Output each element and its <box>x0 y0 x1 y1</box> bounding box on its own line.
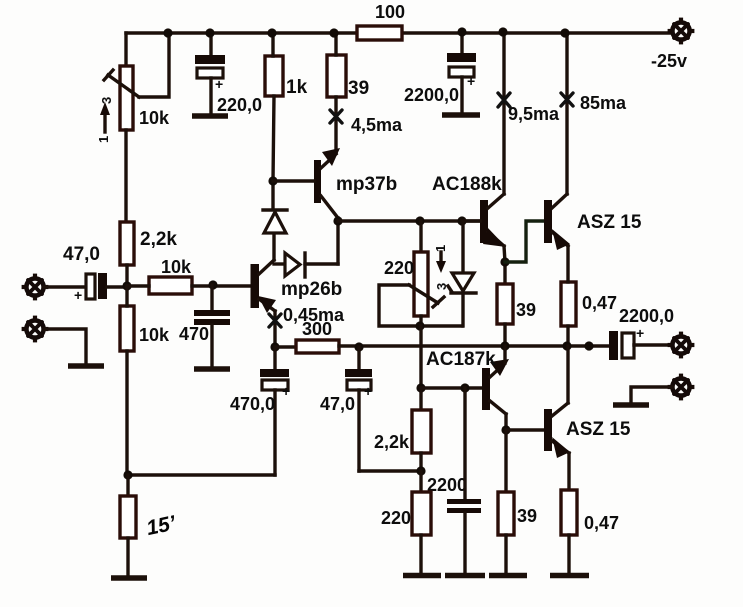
svg-text:470,0: 470,0 <box>230 394 275 414</box>
transistor Q mp37b <box>314 148 397 218</box>
svg-text:+: + <box>282 383 290 399</box>
terminal output 2 <box>668 374 695 401</box>
node left column low junction <box>123 470 132 479</box>
terminal input 1 <box>22 274 49 301</box>
node rail dot 6 <box>498 27 507 36</box>
resistor 0,47 lower <box>561 453 619 573</box>
wire top supply rail left part <box>126 31 357 34</box>
capacitor 2200,0 top <box>404 33 476 113</box>
wire ASZ emitter to 0,47 <box>566 246 569 282</box>
transistor Q AC188k <box>432 174 506 247</box>
wire 39 to rail <box>503 324 506 346</box>
svg-text:ASZ 15: ASZ 15 <box>566 419 631 440</box>
wire input node down <box>125 286 128 475</box>
svg-text:10k: 10k <box>139 325 170 345</box>
wire top supply rail right part <box>402 31 671 34</box>
wire 470,0 to left column <box>128 473 275 476</box>
svg-text:9,5ma: 9,5ma <box>508 104 560 124</box>
svg-text:0,47: 0,47 <box>584 513 619 533</box>
transistor Q mp26b <box>251 260 343 313</box>
svg-text:mp26b: mp26b <box>281 279 342 300</box>
svg-text:+: + <box>74 287 82 303</box>
wire AC187k collector down <box>504 414 507 430</box>
capacitor 470 <box>179 285 230 368</box>
resistor 1k <box>265 56 308 98</box>
svg-text:100: 100 <box>375 2 405 22</box>
transistor Q ASZ15 upper <box>544 194 642 250</box>
node rail dot 4 <box>329 28 338 37</box>
node 220 junction <box>416 466 425 475</box>
svg-text:39: 39 <box>516 300 536 320</box>
svg-text:470: 470 <box>179 324 209 344</box>
resistor 0,47 upper <box>561 282 617 326</box>
ground output2 <box>613 402 649 408</box>
svg-text:3: 3 <box>99 97 114 104</box>
diode D2 horizontal <box>274 253 338 277</box>
wire 2,2k to input node <box>125 265 128 286</box>
wire bias node down to AC187k base <box>419 326 422 388</box>
wire driver rail to AC188k base <box>338 219 481 222</box>
wire pot wiper strap <box>379 285 462 326</box>
svg-text:220: 220 <box>384 258 414 278</box>
node rail dot 7 <box>560 28 569 37</box>
ground 2200 <box>445 573 485 579</box>
svg-text:+: + <box>364 383 372 399</box>
ground 2200,0 <box>442 112 480 118</box>
node rail dot 5 <box>457 27 466 36</box>
diode D3 bias <box>448 221 476 326</box>
capacitor 47,0 input <box>63 244 107 303</box>
svg-text:300: 300 <box>302 319 332 339</box>
svg-text:mp37b: mp37b <box>336 174 397 195</box>
capacitor 2200,0 output <box>609 306 674 360</box>
node AC187k collector junction <box>501 425 510 434</box>
svg-text:47,0: 47,0 <box>63 244 100 265</box>
node rail dot 2 <box>205 28 214 37</box>
wire emitter to ASZ15 base <box>505 221 544 262</box>
svg-text:4,5ma: 4,5ma <box>351 115 403 135</box>
node output cap junction <box>584 341 593 350</box>
wire input to cap <box>44 285 86 288</box>
wire 1k stems <box>273 33 274 181</box>
wire mp26b emitter down <box>273 311 276 347</box>
wire pot wiper to rail <box>139 34 169 97</box>
terminal input 2 <box>22 316 49 343</box>
wire output rail <box>339 344 610 347</box>
pot arrow 1 to 3 <box>96 97 114 143</box>
diode D1 vertical <box>263 181 287 233</box>
wire mp37b base <box>273 179 314 182</box>
x mark 4,5ma <box>330 110 403 135</box>
x mark 9,5ma <box>498 93 560 124</box>
node 47,0 junction <box>354 342 363 351</box>
wire 0,47 to rail <box>566 326 569 346</box>
node rail dot 1 <box>163 28 172 37</box>
resistor 220 lower <box>381 471 431 573</box>
node pot bottom <box>415 321 424 330</box>
resistor 2,2k <box>120 222 134 265</box>
svg-text:85ma: 85ma <box>580 93 627 113</box>
resistor 39 upper right <box>497 284 536 324</box>
node base junction <box>208 280 217 289</box>
wire AC187k emitter to rail <box>503 346 506 363</box>
wire pot bottom to R2,2k <box>124 130 127 222</box>
wire 39 stems <box>334 33 337 153</box>
wire AC188k emitter down <box>504 246 505 284</box>
resistor 10k series <box>149 257 192 294</box>
node input junction <box>122 281 131 290</box>
ground 220,0 <box>192 113 228 119</box>
wire AC188k base <box>462 219 480 222</box>
node 220 pot top <box>415 216 424 225</box>
x mark 85ma <box>561 93 627 113</box>
svg-text:+: + <box>636 325 644 341</box>
wire 10k to base node <box>127 284 251 287</box>
resistor 300 <box>275 319 339 353</box>
svg-text:10k: 10k <box>139 108 170 128</box>
wire AC188k collector to rail <box>502 33 505 194</box>
ground 39 lower <box>489 573 527 579</box>
wire mp26b emitter node <box>270 342 279 351</box>
wire ASZ15 lower collector to rail <box>566 346 569 403</box>
svg-text:220,0: 220,0 <box>217 95 262 115</box>
wire cap to input node <box>107 285 127 288</box>
svg-text:+: + <box>215 76 223 92</box>
resistor R 100 <box>357 26 402 40</box>
svg-text:2200,0: 2200,0 <box>404 85 459 105</box>
wire to ASZ15 lower base <box>506 428 544 431</box>
wire diode to collector node <box>336 221 339 264</box>
svg-text:47,0: 47,0 <box>320 394 355 414</box>
node 0,47 lower rail junction <box>562 341 571 350</box>
transistor Q ASZ15 lower <box>544 403 631 458</box>
resistor 39 lower <box>498 430 537 573</box>
capacitor 220,0 <box>195 33 262 115</box>
svg-text:2,2k: 2,2k <box>374 432 410 452</box>
ground 0,47 lower <box>550 573 589 579</box>
svg-text:0,47: 0,47 <box>582 293 617 313</box>
wire 47,0 to 2,2k node <box>359 469 421 472</box>
svg-text:ASZ 15: ASZ 15 <box>577 212 642 233</box>
wire AC187k base <box>421 386 482 389</box>
wire output2 to ground <box>631 387 672 404</box>
svg-text:2200: 2200 <box>427 475 467 495</box>
terminal output 1 <box>668 332 695 359</box>
svg-text:+: + <box>467 73 475 89</box>
pot 220 arrow 1 to 3 <box>433 245 449 290</box>
svg-text:1: 1 <box>96 136 111 143</box>
node mp37b collector junction <box>336 218 339 221</box>
wire left column top <box>124 33 127 66</box>
svg-text:10k: 10k <box>161 257 192 277</box>
node mp37b base junction <box>268 176 277 185</box>
node rail dot 3 <box>267 28 276 37</box>
resistor 2,2k lower <box>374 388 431 471</box>
x mark 0,45ma <box>269 305 345 327</box>
resistor 39 top <box>327 55 369 99</box>
node 39 lower rail junction <box>500 341 509 350</box>
ground 220 <box>403 573 441 579</box>
node 2200 cap junction <box>460 383 469 392</box>
ground 470 <box>194 366 230 372</box>
ground 15 <box>111 575 147 581</box>
capacitor 470,0 <box>230 347 290 475</box>
resistor 10k lower <box>120 306 170 351</box>
potentiometer 10k <box>104 66 170 130</box>
svg-text:2200,0: 2200,0 <box>619 306 674 326</box>
svg-text:39: 39 <box>517 506 537 526</box>
svg-text:-25v: -25v <box>651 51 687 71</box>
transistor Q AC187k <box>426 349 509 414</box>
capacitor 2200 <box>447 388 481 573</box>
svg-text:2,2k: 2,2k <box>140 229 177 250</box>
terminal -25v <box>651 18 694 71</box>
svg-text:AC187k: AC187k <box>426 349 496 370</box>
wire input2 to ground <box>44 329 86 365</box>
svg-text:AC188k: AC188k <box>432 174 502 195</box>
resistor 15 <box>120 475 179 577</box>
node diode top <box>457 216 466 225</box>
svg-text:15ʼ: 15ʼ <box>144 511 178 540</box>
ground input2 <box>68 363 104 369</box>
svg-text:1k: 1k <box>286 77 308 98</box>
svg-text:220: 220 <box>381 508 411 528</box>
wire ASZ15 collector to rail <box>565 33 568 194</box>
wire mp26b collector up <box>272 234 275 260</box>
node AC188k emitter junction <box>500 257 509 266</box>
node AC187k base junction <box>416 383 425 392</box>
svg-text:39: 39 <box>348 78 369 99</box>
capacitor 47,0 bottom <box>320 347 372 471</box>
potentiometer 220 <box>384 221 444 326</box>
